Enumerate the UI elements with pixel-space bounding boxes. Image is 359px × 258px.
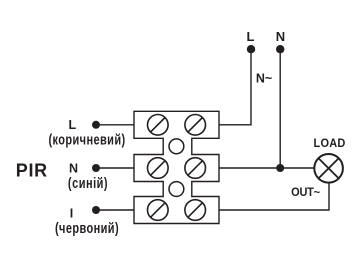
svg-text:N: N: [276, 29, 285, 44]
svg-text:(синій): (синій): [68, 175, 108, 192]
svg-text:N: N: [69, 162, 78, 176]
svg-text:N~: N~: [256, 72, 272, 86]
svg-text:PIR: PIR: [16, 159, 48, 181]
svg-text:OUT~: OUT~: [291, 185, 320, 199]
svg-text:L: L: [247, 29, 255, 44]
svg-text:LOAD: LOAD: [314, 136, 346, 150]
svg-text:L: L: [68, 118, 76, 132]
svg-text:(червоний): (червоний): [55, 219, 119, 236]
svg-text:(коричневий): (коричневий): [48, 131, 125, 148]
